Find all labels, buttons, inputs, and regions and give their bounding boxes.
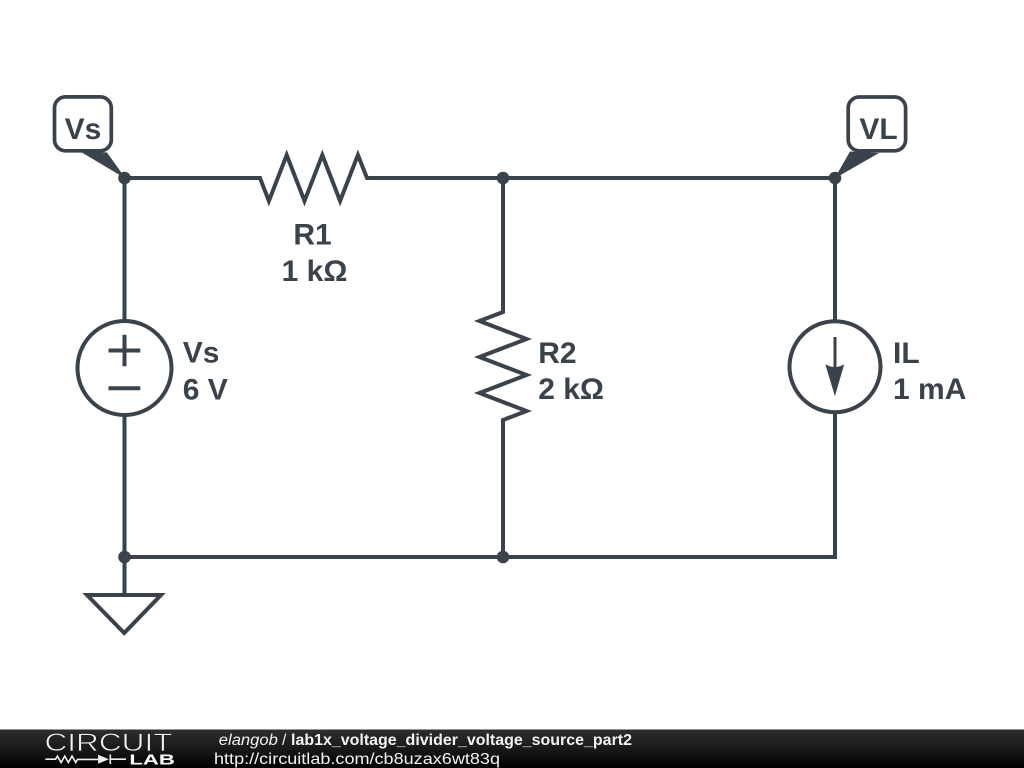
resistor R2 zigzag [480, 307, 527, 425]
svg-text:2 kΩ: 2 kΩ [538, 373, 604, 406]
ground symbol [87, 595, 161, 633]
svg-text:IL: IL [893, 337, 920, 370]
junction node top-left [118, 172, 131, 185]
wire top-left (node Vs to R1) [125, 176, 261, 180]
resistor R1 zigzag [255, 155, 372, 201]
current source IL circle [790, 321, 881, 412]
voltage source V1 circle [78, 321, 172, 415]
svg-text:1 kΩ: 1 kΩ [282, 255, 348, 288]
svg-text:http://circuitlab.com/cb8uzax6: http://circuitlab.com/cb8uzax6wt83q [214, 751, 500, 768]
net flag VL pointer [835, 152, 880, 179]
V1 minus sign [109, 386, 141, 390]
net flag Vs box [55, 97, 112, 151]
svg-text:Vs: Vs [65, 113, 102, 146]
net flag Vs pointer [79, 151, 126, 179]
svg-text:Vs: Vs [183, 337, 220, 370]
wire left branch upper (node Vs to source V1) [123, 176, 127, 321]
svg-text:R1: R1 [293, 219, 331, 252]
net flag VL box [848, 97, 905, 151]
junction node bottom-left [118, 551, 131, 564]
svg-text:1 mA: 1 mA [893, 373, 966, 406]
svg-text:VL: VL [859, 113, 897, 146]
junction node top-mid [497, 172, 510, 185]
logo diode triangle [98, 755, 109, 764]
svg-text:lab1x_voltage_divider_voltage_: lab1x_voltage_divider_voltage_source_par… [291, 732, 632, 749]
IL arrow head [825, 364, 844, 396]
wire left branch lower (source V1 to bottom rail) [123, 415, 127, 559]
svg-text:R2: R2 [538, 337, 576, 370]
wire ground stub [123, 557, 127, 594]
bottom rail wire with right corner up to source IL [125, 412, 836, 557]
wire mid branch lower (R2 to bottom rail) [501, 420, 505, 557]
junction node top-right [829, 172, 842, 185]
svg-text:6 V: 6 V [183, 374, 228, 407]
logo squiggle wire with resistor and diode [45, 755, 126, 765]
wire top-right (R1 to node VL) and right branch upper [367, 178, 835, 321]
svg-text:/: / [282, 732, 287, 749]
V1 plus sign [109, 335, 141, 367]
IL arrow shaft [834, 337, 837, 370]
footer bar [0, 730, 1024, 768]
wire mid branch upper (node A to R2) [501, 178, 505, 312]
junction node bottom-mid [497, 551, 510, 564]
svg-text:LAB: LAB [129, 751, 175, 768]
svg-text:elangob: elangob [219, 732, 278, 749]
